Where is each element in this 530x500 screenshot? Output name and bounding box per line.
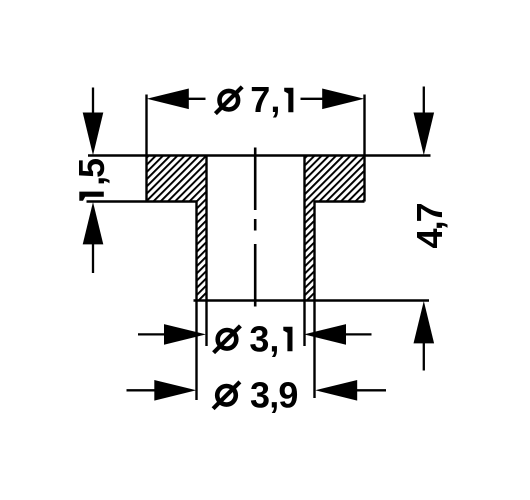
part outline: left flange underside + extension left: [87, 200, 198, 203]
svg-text:4,7: 4,7: [409, 202, 450, 248]
hatched left flange/sleeve cross-section: [147, 156, 207, 301]
part outline: hole right wall + extension down: [303, 156, 305, 347]
part outline: sleeve bottom edge + extension right: [194, 299, 430, 302]
dimension label 1,5 (rotated): [79, 192, 104, 201]
hatched right flange/sleeve cross-section: [305, 156, 365, 301]
part outline: sleeve right wall + extension down: [313, 202, 315, 399]
part outline: left flange side + dim extension up: [145, 95, 147, 202]
dimension label Ø 3,1 (diameter symbol drawn as circle + slash): [218, 330, 237, 349]
part outline: right flange side + dim extension up: [363, 95, 365, 202]
part outline: hole left wall + extension down: [205, 156, 207, 347]
dimension 4,7 bottom arrow: [414, 301, 435, 343]
svg-text:3,9: 3,9: [250, 374, 298, 415]
dimension label Ø 7,1 (diameter symbol drawn as circle + slash): [220, 91, 239, 110]
dimension 1,5 bottom arrow: [83, 202, 104, 244]
dimension Ø 3,9 right arrow: [315, 380, 357, 401]
dimension 1,5 top arrow: [92, 88, 94, 114]
dimension Ø 7,1 right arrow: [301, 98, 324, 100]
dimension 4,7 top arrow: [423, 87, 425, 114]
dimension Ø 3,1 right arrow: [304, 324, 346, 345]
part outline: sleeve left wall + extension down: [195, 202, 197, 401]
part outline: top edge with extension lines: [88, 154, 431, 157]
dimension label Ø 3,9 (diameter symbol drawn as circle + slash): [217, 386, 236, 405]
part outline: right flange underside: [314, 200, 365, 203]
svg-text:5: 5: [71, 158, 112, 178]
svg-text:7,: 7,: [250, 79, 280, 120]
svg-text:3,: 3,: [249, 318, 279, 359]
dimension Ø 3,9 left arrow: [127, 389, 157, 391]
dimension Ø 3,1 left arrow: [138, 333, 166, 335]
dimension Ø 7,1 left arrow: [188, 98, 206, 100]
centerline (dash-dot): [254, 148, 257, 211]
